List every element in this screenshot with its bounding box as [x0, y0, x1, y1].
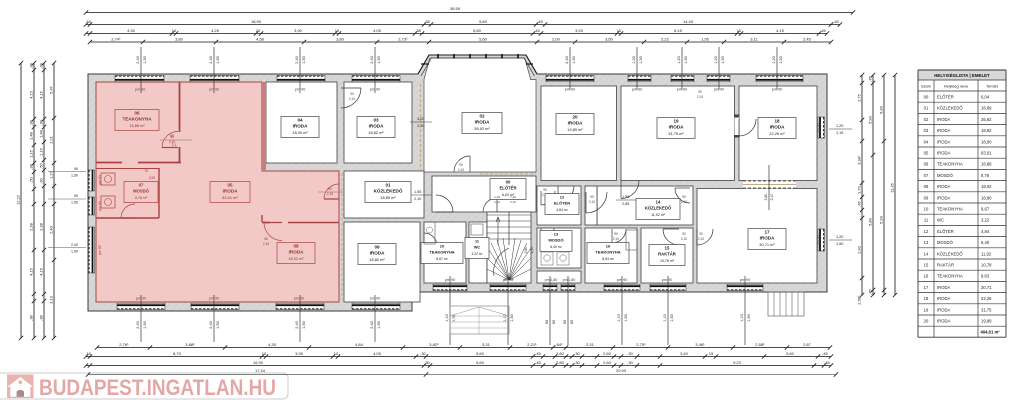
- svg-text:09: 09: [374, 245, 380, 250]
- room 17 IRODA: [697, 189, 817, 284]
- svg-text:10: 10: [335, 28, 340, 33]
- svg-text:2,74⁵: 2,74⁵: [111, 36, 121, 41]
- svg-text:pm 90: pm 90: [445, 278, 456, 282]
- svg-text:2,10: 2,10: [417, 124, 424, 128]
- svg-text:2,60: 2,60: [603, 351, 612, 356]
- svg-text:18,89 m²: 18,89 m²: [380, 195, 396, 200]
- svg-text:Helyiség neve: Helyiség neve: [944, 84, 968, 89]
- svg-text:18,00: 18,00: [981, 139, 992, 144]
- svg-text:,38: ,38: [424, 19, 430, 24]
- svg-text:WC: WC: [937, 218, 944, 223]
- svg-text:1,48: 1,48: [38, 129, 43, 138]
- svg-text:pm 90: pm 90: [136, 297, 147, 301]
- svg-text:404,01 m²: 404,01 m²: [981, 330, 1001, 335]
- svg-text:,30: ,30: [424, 360, 430, 365]
- room 20 IRODA: [541, 86, 617, 181]
- svg-text:38,59: 38,59: [450, 6, 461, 11]
- svg-text:6,04: 6,04: [981, 95, 990, 100]
- svg-text:06: 06: [134, 111, 140, 116]
- svg-text:1,95: 1,95: [701, 36, 710, 41]
- svg-text:IRODA: IRODA: [937, 307, 950, 312]
- bay window glazing: [418, 55, 537, 74]
- svg-text:MOSDÓ: MOSDÓ: [937, 240, 954, 245]
- svg-text:4,15: 4,15: [38, 267, 43, 276]
- svg-text:3,22: 3,22: [981, 218, 990, 223]
- svg-text:17: 17: [924, 285, 929, 290]
- svg-text:83,01: 83,01: [981, 151, 992, 156]
- outside stairs right: [768, 292, 804, 316]
- svg-text:1,55: 1,55: [622, 195, 629, 199]
- svg-text:2,10: 2,10: [327, 192, 333, 196]
- svg-text:2,10: 2,10: [698, 237, 704, 241]
- svg-text:4,35: 4,35: [268, 342, 277, 347]
- svg-text:1,50: 1,50: [216, 321, 220, 328]
- svg-text:3,80: 3,80: [336, 36, 345, 41]
- svg-text:1,10: 1,10: [740, 314, 744, 321]
- room list table: [918, 70, 1006, 80]
- windows top wall: [115, 75, 164, 81]
- svg-text:14: 14: [656, 200, 661, 205]
- svg-text:,38: ,38: [28, 119, 33, 125]
- windows bottom-left wall: [117, 303, 165, 309]
- svg-text:pm 90: pm 90: [740, 278, 751, 282]
- svg-text:10: 10: [334, 351, 339, 356]
- svg-text:15: 15: [924, 263, 929, 268]
- room 10 TEAKONYHA: [424, 222, 466, 283]
- svg-text:7,20: 7,20: [510, 195, 516, 199]
- svg-text:ELŐTÉR: ELŐTÉR: [937, 229, 954, 234]
- svg-text:5,80: 5,80: [479, 19, 488, 24]
- svg-text:3,90⁵: 3,90⁵: [856, 155, 861, 165]
- svg-text:pm 90: pm 90: [98, 245, 102, 254]
- svg-text:IRODA: IRODA: [760, 236, 775, 241]
- svg-text:MOSDÓ: MOSDÓ: [133, 189, 150, 194]
- svg-text:12: 12: [924, 229, 929, 234]
- svg-text:18,90: 18,90: [251, 19, 262, 24]
- svg-text:2,40: 2,40: [209, 56, 213, 63]
- svg-text:,18: ,18: [85, 351, 91, 356]
- mosdo 13 fixtures: [541, 252, 553, 265]
- svg-text:90: 90: [74, 194, 78, 198]
- svg-text:1,20: 1,20: [677, 56, 681, 63]
- svg-text:4,05: 4,05: [373, 28, 382, 33]
- svg-text:8,63: 8,63: [981, 274, 990, 279]
- svg-text:35,92 m²: 35,92 m²: [474, 126, 490, 131]
- svg-text:1,15: 1,15: [38, 147, 43, 156]
- bottom dimension chain: [97, 347, 830, 349]
- svg-text:2,40: 2,40: [136, 321, 140, 328]
- svg-text:2,21⁵: 2,21⁵: [527, 342, 537, 347]
- svg-text:18,02 m²: 18,02 m²: [288, 256, 304, 261]
- svg-text:pm 90: pm 90: [565, 88, 576, 92]
- svg-text:ELŐTÉR: ELŐTÉR: [554, 201, 570, 206]
- svg-text:1,50: 1,50: [71, 250, 78, 254]
- svg-text:90: 90: [682, 232, 686, 236]
- room 18 IRODA: [739, 86, 817, 181]
- svg-text:17,44: 17,44: [255, 368, 266, 373]
- svg-text:03: 03: [373, 118, 379, 123]
- svg-text:4,15: 4,15: [38, 90, 43, 99]
- svg-text:1,50: 1,50: [302, 321, 306, 328]
- bottom-left window axis lines: [140, 295, 142, 342]
- svg-text:2,10: 2,10: [770, 194, 774, 201]
- svg-text:2,70⁵: 2,70⁵: [636, 342, 646, 347]
- svg-text:11,35: 11,35: [889, 182, 894, 192]
- svg-text:,30: ,30: [420, 351, 426, 356]
- svg-text:18: 18: [774, 119, 780, 124]
- svg-text:2,10: 2,10: [169, 140, 175, 144]
- svg-text:1,20: 1,20: [836, 124, 843, 128]
- room 13 MOSDO: [537, 228, 581, 268]
- svg-text:4,15: 4,15: [28, 90, 33, 99]
- svg-text:20: 20: [572, 115, 578, 120]
- svg-text:1,20: 1,20: [772, 56, 776, 63]
- stairwell treads: [487, 214, 531, 216]
- svg-text:1,70: 1,70: [856, 185, 861, 194]
- svg-text:12,22: 12,22: [15, 194, 20, 205]
- svg-text:IRODA: IRODA: [937, 319, 950, 324]
- svg-text:5,80: 5,80: [473, 28, 482, 33]
- svg-text:90: 90: [350, 92, 354, 96]
- red wall 05|04: [262, 82, 266, 171]
- svg-text:1,50: 1,50: [377, 321, 381, 328]
- svg-text:2,40: 2,40: [370, 56, 374, 63]
- room 03 IRODA: [344, 82, 412, 163]
- svg-text:1,50: 1,50: [302, 56, 306, 63]
- svg-text:pm 90: pm 90: [209, 297, 220, 301]
- svg-text:75: 75: [144, 169, 148, 173]
- svg-text:90: 90: [699, 232, 703, 236]
- svg-text:BUDAPEST.INGATLAN.HU: BUDAPEST.INGATLAN.HU: [39, 375, 276, 400]
- svg-text:1,50: 1,50: [71, 201, 78, 205]
- svg-text:18,80: 18,80: [981, 195, 992, 200]
- svg-text:MOSDÓ: MOSDÓ: [548, 238, 563, 243]
- svg-text:ELŐTÉR: ELŐTÉR: [937, 95, 954, 100]
- svg-text:5,60: 5,60: [786, 351, 795, 356]
- svg-text:1,20: 1,20: [494, 195, 500, 199]
- svg-text:01: 01: [924, 106, 929, 111]
- svg-text:2,85: 2,85: [622, 202, 629, 206]
- svg-text:pm 90: pm 90: [772, 88, 783, 92]
- svg-text:IRODA: IRODA: [937, 195, 950, 200]
- svg-text:IRODA: IRODA: [370, 251, 385, 256]
- room 15 RAKTAR: [641, 228, 693, 283]
- room 19 IRODA: [621, 86, 735, 181]
- svg-text:08: 08: [924, 184, 929, 189]
- svg-text:pm 90: pm 90: [817, 235, 821, 244]
- svg-text:IRODA: IRODA: [568, 121, 583, 126]
- svg-text:3,31: 3,31: [482, 342, 491, 347]
- svg-text:,45: ,45: [824, 360, 830, 365]
- svg-text:03: 03: [924, 128, 929, 133]
- svg-text:pm 90: pm 90: [370, 297, 381, 301]
- svg-text:4,84: 4,84: [355, 342, 364, 347]
- svg-text:02: 02: [479, 114, 485, 119]
- svg-text:04: 04: [924, 139, 929, 144]
- svg-text:2,40: 2,40: [295, 321, 299, 328]
- svg-text:2,40: 2,40: [48, 225, 53, 234]
- svg-text:2,10: 2,10: [681, 200, 687, 204]
- svg-text:22,26: 22,26: [981, 296, 992, 301]
- svg-text:,38: ,38: [28, 163, 33, 169]
- svg-text:2,10: 2,10: [349, 97, 355, 101]
- svg-text:18,89: 18,89: [981, 106, 992, 111]
- svg-text:6,40 m²: 6,40 m²: [550, 245, 562, 249]
- svg-text:14,43: 14,43: [683, 19, 694, 24]
- svg-text:00: 00: [924, 95, 929, 100]
- svg-text:IRODA: IRODA: [937, 139, 950, 144]
- svg-text:,30: ,30: [627, 360, 633, 365]
- windows right wall: [818, 117, 824, 138]
- svg-text:2,00: 2,00: [149, 176, 155, 180]
- svg-text:pm 1,80: pm 1,80: [545, 278, 558, 282]
- svg-text:pm 90: pm 90: [632, 88, 643, 92]
- svg-text:1,21: 1,21: [48, 135, 53, 144]
- svg-text:90: 90: [74, 167, 78, 171]
- svg-text:1,50: 1,50: [639, 56, 643, 63]
- svg-text:4,05: 4,05: [373, 351, 382, 356]
- svg-text:8,67: 8,67: [981, 207, 990, 212]
- svg-text:90: 90: [328, 187, 332, 191]
- svg-text:IRODA: IRODA: [289, 250, 304, 255]
- svg-text:2,40: 2,40: [71, 243, 78, 247]
- red wall under rooms 04: [262, 170, 339, 172]
- svg-text:pm 90: pm 90: [677, 88, 688, 92]
- svg-text:83,01 m²: 83,01 m²: [222, 195, 238, 200]
- top dimension chain: [86, 12, 853, 14]
- svg-text:,50: ,50: [28, 176, 33, 182]
- svg-text:90: 90: [170, 135, 174, 139]
- pink highlighted zone (rooms 05,06,07,08): [96, 82, 339, 302]
- svg-text:5,60: 5,60: [476, 351, 485, 356]
- svg-text:IRODA: IRODA: [223, 189, 238, 194]
- svg-text:,84⁵: ,84⁵: [555, 342, 563, 347]
- svg-text:04: 04: [297, 118, 303, 123]
- room 09 IRODA: [344, 222, 420, 302]
- svg-text:,45: ,45: [535, 351, 541, 356]
- room 11 WC: [469, 222, 487, 283]
- svg-text:8,70: 8,70: [173, 351, 182, 356]
- svg-text:20: 20: [924, 319, 929, 324]
- svg-text:5,90: 5,90: [878, 215, 883, 224]
- svg-text:pm 90: pm 90: [504, 277, 514, 281]
- room 16 TEAKONYHA: [585, 228, 637, 283]
- svg-text:pm 90: pm 90: [617, 278, 628, 282]
- svg-text:HELYISÉGLISTA | EMELET: HELYISÉGLISTA | EMELET: [934, 73, 990, 78]
- svg-text:18,80 m²: 18,80 m²: [369, 257, 385, 262]
- svg-text:6,15: 6,15: [674, 28, 683, 33]
- svg-text:10: 10: [737, 28, 742, 33]
- svg-text:pm 1,80: pm 1,80: [563, 278, 576, 282]
- svg-text:3,60: 3,60: [605, 36, 614, 41]
- room 08 red walls: [288, 222, 339, 224]
- windows bottom-right wall: [433, 284, 467, 290]
- svg-text:90: 90: [614, 232, 618, 236]
- svg-text:IRODA: IRODA: [937, 151, 950, 156]
- svg-text:IRODA: IRODA: [937, 285, 950, 290]
- windows left wall: [88, 170, 94, 191]
- svg-text:18,88: 18,88: [981, 162, 992, 167]
- svg-text:13: 13: [554, 232, 559, 237]
- svg-text:1,50: 1,50: [71, 174, 78, 178]
- svg-text:2,10: 2,10: [414, 197, 421, 201]
- svg-text:,45: ,45: [856, 200, 861, 206]
- svg-text:IRODA: IRODA: [669, 125, 684, 130]
- stairwell: [487, 212, 531, 283]
- svg-text:3,95: 3,95: [295, 351, 304, 356]
- room labels: [115, 110, 159, 131]
- svg-text:2,22: 2,22: [661, 36, 670, 41]
- svg-text:,45: ,45: [822, 351, 828, 356]
- svg-text:30,71: 30,71: [981, 285, 992, 290]
- svg-text:1,50: 1,50: [377, 56, 381, 63]
- svg-text:TEAKONYHA: TEAKONYHA: [595, 250, 620, 255]
- svg-text:,90: ,90: [38, 177, 43, 183]
- svg-text:05: 05: [227, 183, 233, 188]
- svg-text:05: 05: [924, 151, 929, 156]
- svg-text:10,78: 10,78: [981, 263, 992, 268]
- svg-text:TEAKONYHA: TEAKONYHA: [937, 274, 963, 279]
- svg-text:3,82⁵: 3,82⁵: [429, 342, 439, 347]
- door in 19|18 partition: [735, 117, 740, 135]
- svg-text:1,50: 1,50: [572, 56, 576, 63]
- svg-text:3,93: 3,93: [575, 28, 584, 33]
- svg-text:60: 60: [563, 320, 567, 324]
- svg-text:8,76 m²: 8,76 m²: [135, 196, 148, 200]
- svg-text:19,89 m²: 19,89 m²: [567, 127, 583, 132]
- svg-text:14: 14: [924, 251, 929, 256]
- svg-text:4,84 m²: 4,84 m²: [556, 208, 568, 212]
- svg-text:15: 15: [665, 246, 670, 251]
- svg-text:2,10: 2,10: [697, 95, 703, 99]
- svg-text:10: 10: [440, 244, 445, 249]
- svg-text:1,50: 1,50: [624, 314, 628, 321]
- svg-text:3,46⁵: 3,46⁵: [695, 342, 705, 347]
- svg-text:1,50: 1,50: [216, 56, 220, 63]
- svg-text:06: 06: [924, 162, 929, 167]
- red wall room06|05: [179, 82, 181, 132]
- svg-text:IRODA: IRODA: [293, 124, 308, 129]
- svg-text:2,10: 2,10: [494, 200, 500, 204]
- svg-text:31,75 m²: 31,75 m²: [668, 131, 684, 136]
- svg-text:07: 07: [139, 183, 144, 188]
- svg-text:5,80: 5,80: [867, 217, 872, 226]
- svg-text:,45: ,45: [833, 19, 839, 24]
- svg-text:2,58⁵: 2,58⁵: [755, 342, 765, 347]
- svg-text:2,10: 2,10: [589, 200, 595, 204]
- red wall room06 bottom: [138, 162, 181, 164]
- svg-text:01: 01: [385, 183, 391, 188]
- svg-text:KÖZLEKEDŐ: KÖZLEKEDŐ: [645, 206, 672, 211]
- svg-text:,50: ,50: [38, 162, 43, 168]
- svg-text:8,63 m²: 8,63 m²: [602, 257, 614, 261]
- svg-text:17: 17: [764, 230, 770, 235]
- svg-text:2,10: 2,10: [510, 200, 516, 204]
- svg-text:2,10: 2,10: [263, 242, 269, 246]
- svg-text:1,50: 1,50: [836, 242, 843, 246]
- svg-text:10: 10: [262, 351, 267, 356]
- svg-text:1,10: 1,10: [617, 314, 621, 321]
- svg-text:4,84: 4,84: [981, 229, 990, 234]
- svg-text:RAKTÁR: RAKTÁR: [937, 263, 954, 268]
- svg-text:4,25: 4,25: [211, 28, 220, 33]
- svg-text:19,89: 19,89: [981, 319, 992, 324]
- svg-text:,45: ,45: [820, 28, 826, 33]
- svg-text:4,58: 4,58: [256, 36, 265, 41]
- wc 11 fixture: [471, 224, 483, 235]
- svg-text:19: 19: [673, 119, 679, 124]
- svg-text:5,90: 5,90: [867, 115, 872, 124]
- svg-text:pm 90: pm 90: [662, 278, 673, 282]
- svg-text:1,20: 1,20: [632, 56, 636, 63]
- svg-text:2,90: 2,90: [856, 245, 861, 254]
- svg-text:IRODA: IRODA: [475, 120, 490, 125]
- building outer wall slab: [88, 55, 827, 311]
- svg-text:18,88 m²: 18,88 m²: [129, 123, 145, 128]
- svg-text:TEAKONYHA: TEAKONYHA: [937, 162, 963, 167]
- svg-text:15: 15: [709, 351, 714, 356]
- svg-text:2,10: 2,10: [613, 237, 619, 241]
- bottom-right window axis lines: [449, 276, 451, 345]
- svg-text:5,47: 5,47: [48, 85, 53, 94]
- svg-text:1,15: 1,15: [836, 131, 843, 135]
- svg-text:3,11: 3,11: [750, 36, 758, 41]
- svg-text:,30: ,30: [574, 360, 580, 365]
- svg-text:1,50: 1,50: [747, 314, 751, 321]
- svg-text:11,92: 11,92: [981, 251, 992, 256]
- svg-text:IRODA: IRODA: [937, 128, 950, 133]
- svg-text:3,40: 3,40: [680, 351, 689, 356]
- svg-text:2,80: 2,80: [556, 360, 565, 365]
- corridor 586-597: [585, 186, 597, 225]
- left dimension columns: [20, 63, 22, 338]
- svg-text:1,50: 1,50: [143, 321, 147, 328]
- svg-text:1,50: 1,50: [779, 56, 783, 63]
- insulation dashes: [420, 84, 422, 170]
- svg-text:3,90: 3,90: [294, 28, 303, 33]
- room 02 IRODA with bay: [424, 58, 536, 172]
- svg-text:3,80: 3,80: [175, 36, 184, 41]
- svg-text:KÖZLEKEDŐ: KÖZLEKEDŐ: [937, 106, 963, 111]
- svg-text:12: 12: [560, 195, 565, 200]
- svg-text:1,20: 1,20: [836, 235, 843, 239]
- svg-text:ELŐTÉR: ELŐTÉR: [500, 186, 517, 191]
- svg-text:TEAKONYHA: TEAKONYHA: [937, 207, 963, 212]
- svg-text:1,15: 1,15: [28, 149, 33, 158]
- teakonyha 16 counter: [626, 230, 637, 250]
- door arcs: [162, 132, 178, 148]
- svg-text:KÖZLEKEDŐ: KÖZLEKEDŐ: [937, 251, 963, 256]
- svg-text:,38: ,38: [28, 62, 33, 68]
- svg-text:90: 90: [682, 195, 686, 199]
- svg-text:2,80: 2,80: [556, 351, 565, 356]
- room 07 MOSDO red walls: [158, 168, 160, 218]
- dim 17,44 over strip: [88, 374, 426, 376]
- svg-text:08: 08: [293, 244, 299, 249]
- svg-text:02: 02: [924, 117, 929, 122]
- svg-text:90: 90: [264, 237, 268, 241]
- svg-text:,38: ,38: [28, 314, 33, 320]
- svg-text:18,62: 18,62: [981, 128, 992, 133]
- room 01 KOZLEKEDO: [344, 171, 424, 218]
- svg-text:3,13: 3,13: [48, 295, 53, 304]
- svg-text:20: 20: [256, 28, 261, 33]
- svg-text:2,38: 2,38: [28, 222, 33, 231]
- svg-text:2,76⁵: 2,76⁵: [119, 342, 129, 347]
- svg-text:2,80: 2,80: [764, 194, 768, 201]
- svg-text:pm 90: pm 90: [817, 123, 821, 132]
- svg-text:WC: WC: [474, 246, 481, 250]
